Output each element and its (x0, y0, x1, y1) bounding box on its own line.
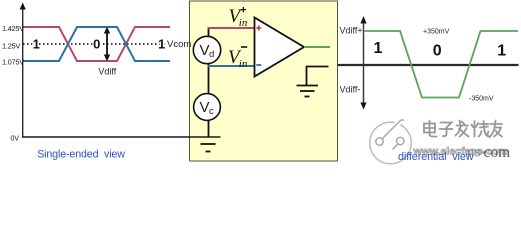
svg-text:V: V (200, 42, 210, 59)
svg-text:0: 0 (433, 43, 442, 60)
svg-text:1: 1 (497, 43, 506, 60)
svg-text:d: d (209, 49, 214, 60)
svg-text:in: in (239, 17, 248, 29)
svg-text:differential view: differential view (398, 151, 474, 163)
svg-text:-350mV: -350mV (469, 96, 494, 103)
svg-text:1.075V: 1.075V (2, 58, 24, 67)
svg-text:in: in (239, 58, 248, 70)
svg-text:com: com (484, 144, 511, 161)
svg-text:1.425V: 1.425V (2, 24, 24, 33)
svg-text:V: V (200, 99, 210, 116)
svg-text:Vdiff-: Vdiff- (340, 85, 361, 95)
svg-text:Vdiff: Vdiff (98, 67, 116, 77)
svg-text:1: 1 (158, 36, 165, 51)
svg-text:0V: 0V (10, 134, 19, 143)
svg-text:c: c (209, 106, 214, 117)
svg-text:Vdiff+: Vdiff+ (340, 26, 363, 36)
svg-text:1: 1 (374, 40, 383, 57)
svg-text:+350mV: +350mV (423, 28, 450, 35)
svg-text:Single-ended view: Single-ended view (37, 149, 125, 161)
svg-text:Vcom: Vcom (167, 39, 191, 50)
svg-text:0: 0 (93, 36, 100, 51)
svg-text:1.25V: 1.25V (2, 42, 20, 51)
svg-text:1: 1 (33, 36, 40, 51)
